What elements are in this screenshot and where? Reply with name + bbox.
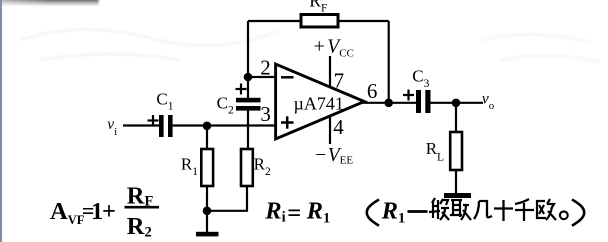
- note text: fullwidth close paren: [572, 200, 584, 226]
- ground (RL): [444, 193, 471, 198]
- capacitor C1: [159, 115, 173, 137]
- wire pin6 output to C3: [363, 102, 417, 104]
- capacitor C3: [416, 90, 431, 113]
- wire pin2 node to op-amp: [248, 76, 275, 78]
- hanzi yi (one): [408, 210, 428, 213]
- hanzi qian (thousand): [515, 199, 534, 221]
- hanzi ji (several): [474, 201, 492, 219]
- svg-text:AVF: AVF: [50, 198, 85, 227]
- resistor RL: [450, 132, 462, 170]
- node vo junction dot: [452, 99, 461, 108]
- svg-text:C2: C2: [217, 94, 234, 117]
- svg-text:+: +: [102, 198, 116, 225]
- hanzi shi (ten): [494, 200, 513, 221]
- svg-text:R2: R2: [127, 213, 152, 241]
- svg-text:µA741: µA741: [294, 94, 344, 114]
- left blue edge line: [0, 0, 2, 242]
- ground (main): [196, 232, 219, 237]
- C1 polarity plus: [148, 115, 159, 126]
- svg-text:RF: RF: [127, 182, 154, 209]
- svg-text:R1: R1: [306, 197, 331, 226]
- ideographic full stop: [560, 211, 568, 219]
- svg-text:C3: C3: [412, 67, 429, 91]
- wire R1 to bottom node: [206, 186, 208, 211]
- resistor RF: [301, 15, 338, 28]
- bottom node junction dot: [203, 207, 212, 216]
- svg-text:RF: RF: [309, 0, 327, 14]
- svg-text:+VCC: +VCC: [314, 37, 354, 60]
- pin 4 wire: [329, 116, 331, 144]
- wire vi to C1: [123, 124, 159, 126]
- feedback loop: right vertical wire: [388, 21, 390, 103]
- wire node A down to R1: [206, 126, 208, 150]
- capacitor C2: [236, 98, 261, 111]
- formula Avf = 1 + RF/R2: [50, 182, 159, 240]
- note text: fullwidth open paren: [367, 200, 379, 226]
- resistor R1: [201, 149, 213, 186]
- svg-text:6: 6: [367, 79, 378, 103]
- svg-text:=: =: [287, 199, 301, 226]
- background texture streaks (decor): [20, 29, 600, 62]
- wire vo node down to RL: [455, 103, 457, 133]
- wire C1 to node A: [173, 124, 207, 126]
- resistor R2: [241, 149, 253, 186]
- wire RL to ground: [455, 170, 457, 194]
- svg-text:Ri: Ri: [264, 197, 285, 225]
- wire R2 to bottom bus: [207, 186, 247, 211]
- wire bottom node to ground: [206, 211, 208, 233]
- node pin2 junction dot: [244, 73, 253, 82]
- wire pin2 node down to C2: [247, 77, 249, 98]
- wire node A to pin3: [207, 124, 275, 126]
- svg-text:3: 3: [260, 102, 271, 126]
- svg-text:4: 4: [333, 115, 344, 139]
- C3 polarity plus: [403, 90, 414, 101]
- feedback loop: left vertical wire: [247, 21, 249, 77]
- svg-text:vo: vo: [482, 91, 495, 113]
- op-amp U1 triangle: [276, 64, 365, 139]
- wire C3 to vo: [431, 102, 484, 104]
- svg-text:R1: R1: [381, 197, 406, 226]
- op-amp minus input sign: [281, 76, 294, 79]
- wire C2 down to R2 (crosses pin3 wire): [247, 111, 249, 151]
- svg-text:RL: RL: [426, 139, 444, 163]
- svg-text:R2: R2: [254, 155, 271, 179]
- svg-text:−VEE: −VEE: [315, 145, 353, 167]
- svg-text:7: 7: [334, 68, 345, 92]
- hanzi qu (take): [450, 200, 471, 220]
- top dark band: [0, 0, 100, 7]
- svg-text:vi: vi: [107, 116, 117, 138]
- svg-text:C1: C1: [156, 89, 173, 112]
- node pin6 junction dot: [384, 99, 393, 108]
- svg-text:2: 2: [260, 56, 271, 80]
- C2 polarity plus: [236, 84, 247, 95]
- hanzi ban (general): [429, 198, 449, 220]
- op-amp plus input sign: [281, 116, 294, 128]
- feedback loop: top left wire: [248, 20, 301, 22]
- feedback loop: top right wire: [338, 20, 389, 22]
- node A junction dot: [203, 122, 212, 131]
- hanzi ou (Europe/ohm): [537, 199, 556, 220]
- pin 7 wire: [329, 56, 331, 87]
- svg-text:R1: R1: [181, 155, 198, 179]
